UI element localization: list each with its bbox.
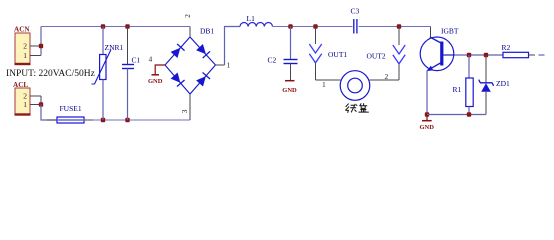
wire ACL down to fuse	[41, 105, 57, 121]
connector J2 ACL	[13, 81, 31, 115]
inductor L1	[240, 14, 272, 27]
svg-text:L1: L1	[247, 14, 256, 23]
svg-text:IGBT: IGBT	[441, 27, 459, 36]
diode on edge L-T	[170, 44, 184, 58]
svg-text:2: 2	[23, 42, 27, 51]
capacitor C1	[122, 27, 141, 121]
pin stub ACN-2	[30, 45, 41, 47]
diamond edges	[165, 37, 216, 94]
svg-text:FUSE1: FUSE1	[60, 104, 82, 113]
wire gate line	[455, 54, 504, 56]
wire emitter bottom rail	[427, 114, 486, 116]
wire DB1 plus riser	[225, 27, 241, 66]
label coil chinese	[345, 103, 368, 113]
diode on edge B-R	[196, 72, 210, 86]
svg-text:ACN: ACN	[14, 26, 30, 34]
junction R1 bottom	[467, 112, 471, 116]
svg-text:R2: R2	[502, 43, 511, 52]
fuse FUSE1	[47, 104, 93, 123]
connector J1 ACN	[14, 26, 31, 65]
wire top rail B	[273, 26, 353, 28]
svg-text:ACL: ACL	[13, 81, 28, 89]
svg-text:OUT2: OUT2	[367, 52, 386, 61]
svg-text:1: 1	[23, 51, 27, 60]
svg-text:2: 2	[183, 14, 192, 18]
svg-text:C1: C1	[132, 56, 141, 65]
pin stub DB1-3 bottom	[189, 94, 191, 120]
ground GND at emitter	[419, 115, 434, 132]
resistor R1	[453, 55, 474, 115]
svg-text:1: 1	[227, 61, 231, 70]
svg-text:1: 1	[322, 80, 326, 89]
resistor R2	[502, 43, 536, 58]
svg-text:OUT1: OUT1	[328, 50, 347, 59]
node OUT2	[367, 27, 406, 81]
junction emitter node	[425, 112, 429, 116]
wire emitter down	[426, 71, 428, 115]
junction R1 top	[467, 53, 471, 57]
pin stub ACL-2	[30, 95, 41, 97]
wire top rail C	[359, 26, 431, 28]
diode on edge L-B	[170, 72, 184, 86]
junction OUT1 tap	[313, 24, 317, 28]
capacitor C3	[351, 7, 360, 34]
svg-text:INPUT: 220VAC/50Hz: INPUT: 220VAC/50Hz	[6, 69, 95, 79]
svg-text:ZNR1: ZNR1	[105, 43, 124, 52]
ground GND at DB1-4	[148, 75, 163, 85]
coil (wire disk)	[340, 71, 370, 101]
svg-text:ZD1: ZD1	[496, 79, 510, 88]
svg-text:GND: GND	[419, 124, 434, 131]
ground GND at C2	[282, 81, 297, 94]
junction C1 bottom	[125, 118, 129, 122]
wire coil to OUT2	[370, 79, 400, 81]
wire top rail A	[41, 26, 190, 28]
wire bottom rail	[93, 119, 190, 121]
svg-text:3: 3	[180, 109, 189, 113]
junction OUT2 tap	[397, 24, 401, 28]
junction C2 tap	[288, 24, 292, 28]
junction at ACL pins	[39, 102, 43, 106]
junction C1 top	[125, 24, 129, 28]
junction at ACN pins	[39, 44, 43, 48]
capacitor C2	[268, 27, 298, 81]
wire stub to edge	[539, 54, 545, 56]
svg-text:2: 2	[385, 72, 389, 81]
junction ZNR1 bottom	[101, 118, 105, 122]
svg-text:C2: C2	[268, 56, 277, 65]
varistor ZNR1	[92, 27, 124, 121]
wire ACL pin link	[40, 96, 42, 105]
node OUT1	[309, 27, 347, 81]
svg-text:4: 4	[149, 55, 153, 64]
wire OUT1 to coil	[316, 79, 341, 81]
junction ZD1 top	[484, 53, 488, 57]
svg-text:GND: GND	[148, 78, 163, 85]
svg-text:C3: C3	[351, 7, 360, 16]
pin stub ACL-1	[30, 104, 41, 106]
svg-text:DB1: DB1	[200, 27, 214, 36]
wire ACN riser	[40, 27, 42, 56]
pin stub DB1-1 right	[216, 64, 225, 66]
svg-text:1: 1	[23, 100, 27, 109]
svg-text:R1: R1	[453, 85, 462, 94]
pin stub ACN-1	[30, 55, 41, 57]
bridge rectifier DB1	[165, 27, 216, 95]
pin stub DB1-4 left	[155, 65, 165, 74]
junction ZNR1 top	[101, 24, 105, 28]
transistor IGBT	[420, 27, 459, 72]
diode on edge T-R	[196, 44, 210, 58]
zener diode ZD1	[479, 55, 510, 115]
pin stub DB1-2 top	[189, 27, 191, 38]
svg-text:GND: GND	[282, 87, 297, 94]
